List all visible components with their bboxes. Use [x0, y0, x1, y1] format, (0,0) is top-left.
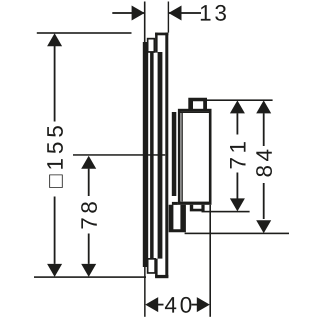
plate bottom foot [155, 275, 168, 278]
collar-to-handle bottom connector [172, 202, 178, 205]
escutcheon plate left band [158, 52, 163, 259]
plate right band (front face) [165, 33, 168, 278]
rear body bar [143, 42, 148, 267]
dim 40 right arrowhead [197, 297, 210, 312]
valve rod [150, 52, 154, 259]
extension line lower box level [185, 233, 289, 235]
handle inner bottom line [179, 202, 210, 203]
label 13 [201, 5, 226, 21]
dim 84 up arrowhead [256, 100, 271, 113]
label 84 (rotated) [256, 150, 272, 177]
dim 71 lower shaft [237, 173, 239, 199]
label square155 (rotated) [47, 126, 63, 188]
dim 40 left shaft [158, 304, 164, 306]
extension line top right [207, 99, 273, 101]
dim 13 left tail [112, 12, 144, 14]
dim 155 upper shaft [54, 46, 56, 122]
dim 71 up arrowhead [230, 100, 245, 113]
bottom reference line [34, 276, 146, 278]
dim 155 lower shaft [54, 197, 56, 264]
select button on top [188, 98, 207, 110]
label 78 (rotated) [81, 202, 97, 228]
dim 71 upper shaft [237, 113, 239, 134]
bottom flange (outlined) [148, 259, 156, 273]
plate top cap [155, 33, 168, 36]
handle inner top line [179, 111, 210, 113]
bottom tab [190, 205, 205, 212]
label 71 (rotated) [230, 142, 245, 168]
dim 84 down arrowhead [256, 220, 271, 233]
lower valve box [169, 205, 186, 233]
dim 78 down arrowhead [81, 264, 96, 277]
dim 78 upper shaft [88, 169, 90, 196]
dim 13 left arrowhead [132, 6, 145, 21]
dim 78 up arrowhead [81, 156, 96, 169]
dim 84 upper shaft [263, 113, 265, 146]
extension line left of 13 [144, 2, 146, 43]
dim 71 down arrowhead [230, 198, 245, 211]
dim 78 lower shaft [88, 234, 90, 264]
dim 155 down arrowhead [47, 264, 62, 277]
handle inner line [181, 112, 182, 201]
label 40 [165, 297, 191, 313]
extension line 40 right [209, 205, 211, 317]
dim 155 up arrowhead [47, 33, 62, 46]
plate left wall bottom [155, 259, 158, 278]
top flange (outlined) [148, 39, 155, 52]
handle body (outlined) [179, 110, 210, 203]
centerline of handle [73, 154, 165, 156]
plate left wall top [155, 33, 158, 53]
dim 13 right arrowhead [169, 6, 182, 21]
extension line right of 13 [168, 2, 169, 33]
dim 40 right shaft [192, 304, 198, 306]
extension line 40 left [144, 267, 146, 317]
dim 13 right tail [169, 12, 202, 14]
dim 84 lower shaft [263, 183, 265, 219]
top reference line [37, 32, 132, 34]
dim 40 left arrowhead [145, 297, 158, 312]
handle collar [172, 112, 177, 196]
extension line tab level [202, 211, 250, 213]
